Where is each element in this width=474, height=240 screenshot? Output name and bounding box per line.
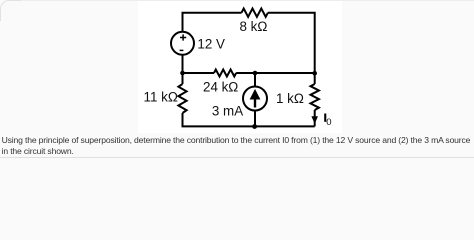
wire left bottom segment — [183, 113, 315, 126]
wire left mid segment — [182, 55, 184, 84]
voltage source V1 circle — [171, 32, 194, 55]
node junction dot bottom-center — [252, 124, 257, 129]
svg-text:24 kΩ: 24 kΩ — [203, 80, 238, 95]
svg-text:8 kΩ: 8 kΩ — [240, 19, 268, 34]
label I0 letter I — [324, 114, 326, 122]
resistor 8 kOhm zigzag — [242, 9, 268, 17]
wire middle right segment — [236, 72, 315, 74]
svg-text:11 kΩ: 11 kΩ — [144, 90, 178, 105]
wire middle left segment — [183, 72, 215, 74]
current arrow I0 down — [311, 116, 318, 124]
resistor 24 kOhm zigzag — [214, 70, 236, 77]
current source arrow up — [250, 89, 261, 108]
caption line 2 — [2, 147, 74, 156]
svg-text:12 V: 12 V — [197, 37, 225, 52]
resistor 11 kOhm zigzag — [178, 84, 186, 113]
svg-text:3 mA: 3 mA — [212, 104, 243, 119]
svg-text:1 kΩ: 1 kΩ — [276, 91, 304, 106]
wire current source top stub — [254, 73, 256, 87]
wire top-right segment — [268, 13, 315, 84]
resistor 1 kOhm zigzag — [311, 84, 319, 110]
node junction dot middle-left — [180, 71, 185, 76]
current source I1 circle — [243, 87, 267, 111]
wire right bottom segment — [314, 110, 316, 126]
node junction dot middle-right — [312, 71, 317, 76]
wire current source bottom stub — [254, 111, 256, 127]
wire top-left segment — [183, 13, 242, 32]
svg-text:0: 0 — [326, 117, 331, 128]
node junction dot middle-center — [253, 71, 258, 76]
voltage source plus sign — [180, 34, 186, 40]
caption line 1 — [2, 136, 471, 145]
voltage source minus sign — [180, 49, 184, 51]
